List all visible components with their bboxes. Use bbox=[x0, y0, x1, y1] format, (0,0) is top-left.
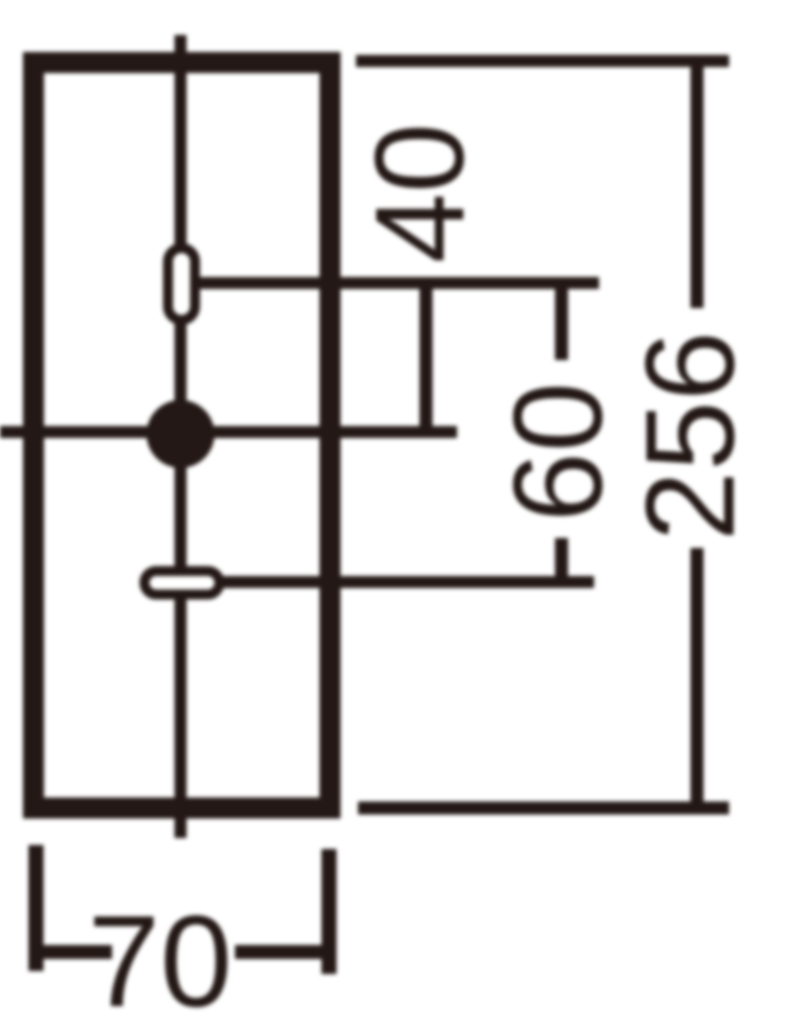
dimension line 60 upper segment bbox=[555, 283, 568, 360]
vertical centerline bbox=[175, 35, 187, 838]
dimension line 60 lower segment bbox=[555, 538, 568, 582]
vertical slot leader line bbox=[198, 277, 599, 289]
svg-text:256: 256 bbox=[620, 331, 761, 541]
dimension line 70 left segment bbox=[36, 945, 112, 959]
dimension line 256 upper segment bbox=[691, 61, 704, 308]
horizontal centerline bbox=[0, 426, 457, 438]
dimension 70 right tick bbox=[322, 849, 337, 974]
bottom extension leader line bbox=[358, 802, 729, 815]
top extension leader line bbox=[356, 55, 729, 67]
dimension line 70 right segment bbox=[235, 945, 329, 959]
svg-text:60: 60 bbox=[488, 382, 629, 522]
dimension line 256 lower segment bbox=[691, 548, 704, 808]
svg-text:70: 70 bbox=[88, 888, 233, 1024]
dimension line 40 (slot to centerline) bbox=[420, 283, 433, 430]
horizontal slot (stadium hole) bbox=[145, 571, 220, 595]
vertical slot (stadium hole) bbox=[168, 248, 195, 320]
dimension 70 left tick bbox=[29, 845, 44, 971]
horizontal slot leader line bbox=[222, 576, 594, 588]
svg-text:40: 40 bbox=[349, 123, 490, 263]
mounting hole circle (filled) bbox=[147, 400, 215, 468]
fixture body outline rectangle bbox=[34, 63, 331, 809]
